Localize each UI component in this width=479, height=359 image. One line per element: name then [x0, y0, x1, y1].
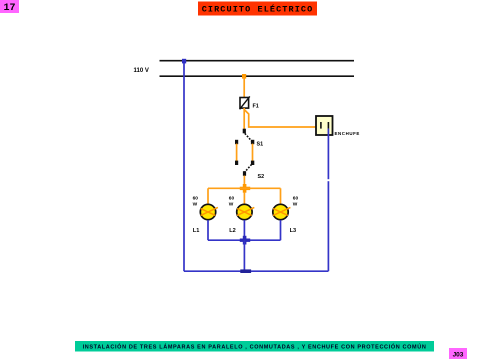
svg-text:S1: S1 — [257, 141, 264, 147]
svg-text:W: W — [229, 202, 234, 208]
svg-text:L3: L3 — [290, 228, 297, 234]
svg-text:17: 17 — [3, 3, 15, 14]
svg-text:CIRCUITO ELÉCTRICO: CIRCUITO ELÉCTRICO — [202, 4, 314, 15]
wire lamp bus top — [208, 187, 281, 189]
lamp L3 — [273, 204, 291, 219]
wire socket neutral down (with gap) — [327, 129, 329, 180]
svg-text:F1: F1 — [253, 104, 259, 110]
junction lamp bus (orange cross) — [240, 184, 250, 193]
wire lamp L2 return — [243, 220, 245, 240]
switch S1 (two-way) — [235, 129, 254, 145]
svg-text:W: W — [293, 202, 298, 208]
svg-text:60: 60 — [229, 196, 235, 202]
wire lamp return bus — [208, 239, 281, 241]
page number box 17 — [0, 0, 19, 14]
node phase tap — [242, 74, 246, 79]
title CIRCUITO ELECTRICO — [198, 2, 317, 16]
junction neutral bus tick — [240, 269, 251, 273]
caption bar — [75, 341, 434, 352]
svg-text:60: 60 — [293, 196, 299, 202]
wire phase drop to fuse — [243, 76, 245, 98]
svg-text:L1: L1 — [193, 228, 200, 234]
wire traveler right — [252, 144, 254, 162]
svg-text:INSTALACIÓN DE TRES LÁMPARAS E: INSTALACIÓN DE TRES LÁMPARAS EN PARALELO… — [83, 343, 427, 351]
svg-text:W: W — [193, 202, 198, 208]
lamp L1 — [200, 204, 218, 219]
svg-text:L2: L2 — [229, 228, 236, 234]
fuse F1 — [240, 96, 250, 109]
wire riser L1 — [207, 188, 209, 204]
svg-text:S2: S2 — [258, 174, 265, 180]
sheet code box J03 — [449, 348, 467, 359]
wire fuse to switch S1 — [243, 108, 245, 130]
wire return bus to neutral bus — [243, 240, 245, 271]
supply rail L (top) — [160, 60, 355, 62]
wire neutral bottom bus — [184, 270, 328, 272]
svg-text:ENCHUFE: ENCHUFE — [335, 131, 360, 136]
node neutral tap — [182, 59, 186, 64]
wire traveler left — [236, 144, 238, 162]
wire lamp L1 return — [207, 220, 209, 240]
wire S2 to lamp bus — [243, 176, 245, 189]
socket ENCHUFE — [316, 116, 333, 135]
supply rail N (bottom) — [160, 75, 355, 77]
wire riser L2 — [243, 192, 245, 205]
wire lamp L3 return — [280, 220, 282, 240]
junction return bus (blue cross) — [240, 236, 250, 245]
svg-text:J03: J03 — [453, 352, 464, 359]
wire neutral vertical left — [183, 61, 185, 271]
svg-text:110 V: 110 V — [134, 68, 149, 74]
svg-text:60: 60 — [193, 196, 199, 202]
switch S2 (two-way) — [235, 161, 254, 176]
wire riser L3 — [280, 188, 282, 204]
wire branch to socket — [244, 110, 321, 128]
lamp L2 — [237, 204, 255, 219]
